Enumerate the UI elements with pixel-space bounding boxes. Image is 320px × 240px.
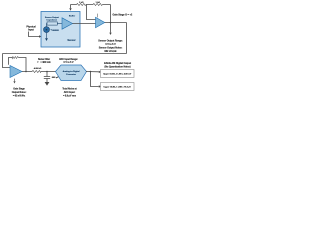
wire ADC output [86, 71, 99, 73]
svg-text:= 8.9 µV rms: = 8.9 µV rms [63, 96, 77, 98]
svg-text:Sensor Output: Sensor Output [45, 16, 59, 19]
resistor RSENSOR [47, 22, 57, 25]
wire feedback top [71, 4, 111, 6]
svg-text:Converter: Converter [66, 73, 76, 76]
wire annotation arrow to gain stage noise label [14, 79, 16, 82]
wire output U3 [22, 71, 56, 73]
svg-text:SENSOR: SENSOR [52, 30, 59, 32]
wire feedback right drop [110, 5, 112, 23]
wire routing down left side [3, 54, 11, 68]
svg-text:1 kΩ: 1 kΩ [96, 1, 101, 4]
wire sensor output [73, 23, 96, 25]
op-amp U2 gain stage [96, 17, 105, 27]
resistor R2 [93, 4, 103, 6]
resistor noise filter [32, 71, 41, 73]
box lower digital output [101, 83, 135, 91]
svg-text:= 62 nV/√Hz: = 62 nV/√Hz [13, 95, 26, 98]
svg-text:Noise Filter: Noise Filter [38, 58, 50, 61]
wire routing down right side [126, 23, 128, 54]
svg-text:Input: Input [28, 29, 34, 32]
node branch [90, 71, 92, 73]
sensor box U1 [41, 12, 80, 48]
wire branch to lower box [91, 72, 99, 87]
svg-text:Gain Stage G = +2: Gain Stage G = +2 [113, 14, 133, 17]
svg-text:Gain Stage: Gain Stage [13, 88, 25, 91]
svg-text:f = 482 kHz: f = 482 kHz [37, 61, 51, 64]
svg-text:682 nV/√Hz: 682 nV/√Hz [104, 50, 117, 53]
svg-text:Upper 16-Bit, 1 LSB = 76.3 µV: Upper 16-Bit, 1 LSB = 76.3 µV [104, 85, 132, 88]
svg-text:Upper 10-Bit, 1 LSB = 4.88 mV: Upper 10-Bit, 1 LSB = 4.88 mV [103, 72, 132, 75]
wire output [105, 22, 127, 24]
ground arrow left end [70, 5, 72, 9]
capacitor C1 [46, 72, 48, 77]
wire routing across [3, 53, 127, 55]
wire [57, 23, 62, 25]
resistor feedback U3 [12, 57, 19, 59]
wire feedback loop U3 [9, 58, 27, 72]
svg-text:Analog-to-Digital: Analog-to-Digital [63, 70, 80, 73]
svg-text:Impedance: Impedance [47, 20, 58, 22]
ground [45, 38, 48, 41]
svg-text:Sensor Output Range:: Sensor Output Range: [98, 39, 123, 42]
svg-text:860 pF: 860 pF [52, 77, 59, 79]
svg-text:(No Quantization Noise): (No Quantization Noise) [105, 65, 131, 68]
svg-text:Total Noise at: Total Noise at [62, 88, 77, 91]
op-amp buffer A1 [62, 18, 73, 29]
resistor R1 [77, 4, 87, 6]
svg-text:ADC Input Range:: ADC Input Range: [59, 58, 78, 61]
svg-text:ADC Input:: ADC Input: [64, 91, 76, 94]
wire [46, 24, 49, 27]
ground [45, 82, 50, 86]
svg-text:Output Noise:: Output Noise: [12, 91, 27, 94]
node output junction [110, 22, 112, 24]
op-amp U3 second gain stage [10, 66, 22, 78]
node U3 output [25, 71, 27, 73]
wire feedback tap to inverting input [87, 5, 96, 20]
supply stub [97, 14, 99, 18]
source VSENSOR [44, 27, 50, 33]
svg-text:Buffer: Buffer [69, 16, 75, 18]
svg-text:4.99 kΩ: 4.99 kΩ [34, 67, 42, 70]
node filter junction [46, 71, 48, 73]
svg-text:Sensor Output Noise:: Sensor Output Noise: [99, 47, 123, 50]
svg-text:Sensor: Sensor [67, 39, 75, 42]
svg-text:0 V to 5 V: 0 V to 5 V [105, 43, 116, 46]
wire annotation arrow [110, 23, 112, 33]
wire [46, 33, 48, 39]
svg-text:0 V to 5 V: 0 V to 5 V [64, 61, 74, 64]
box upper digital output [101, 70, 135, 78]
ADC converter hexagon [56, 65, 87, 81]
svg-text:1 kΩ: 1 kΩ [79, 1, 84, 4]
wire physical input arrow [29, 32, 40, 37]
